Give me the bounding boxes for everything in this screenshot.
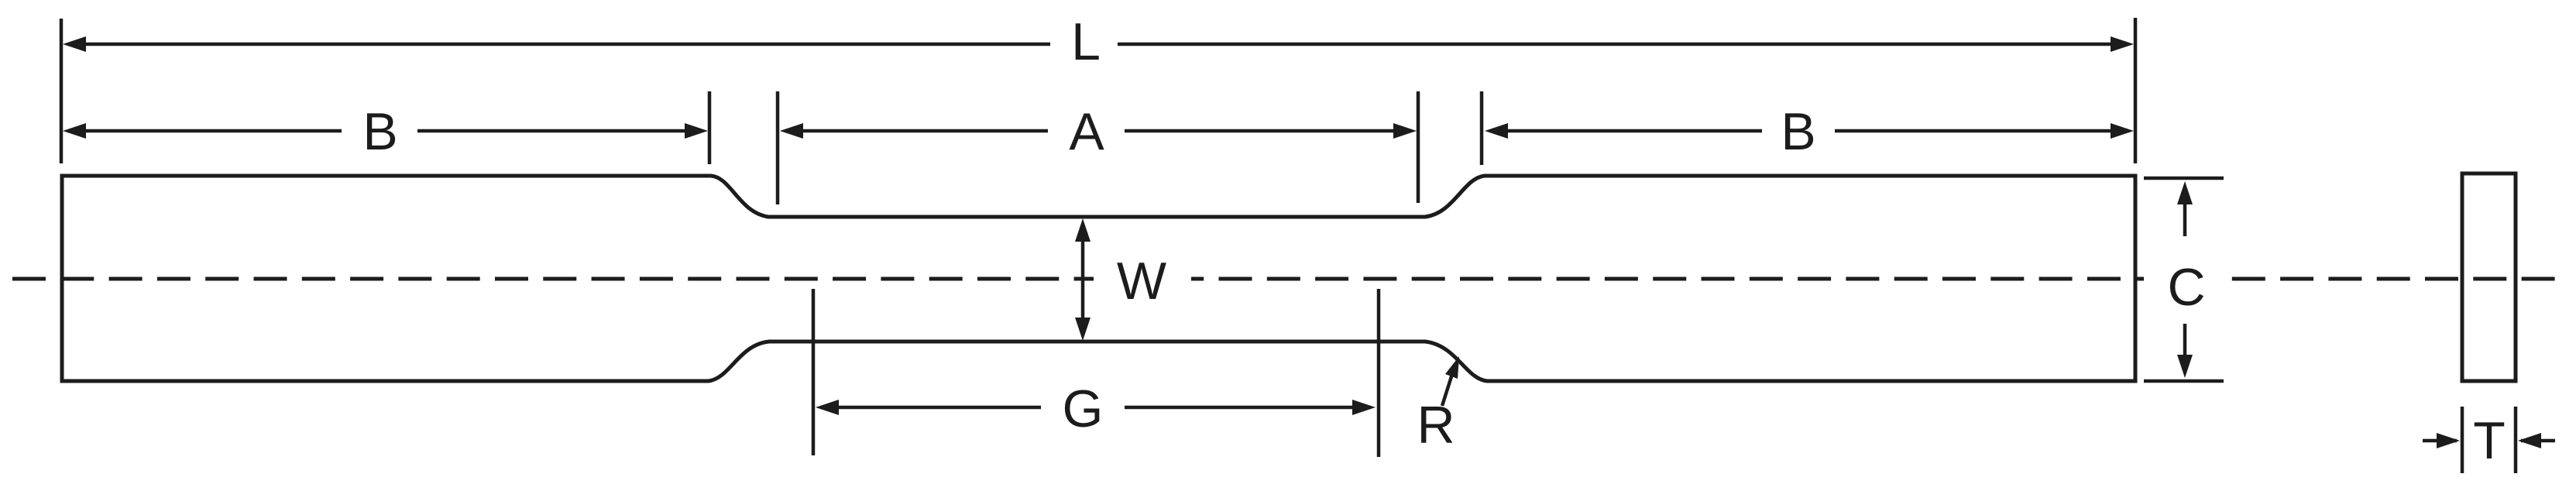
arrowhead T left (points right) xyxy=(2437,433,2460,448)
arrowhead B-right right xyxy=(2111,123,2134,139)
svg-text:W: W xyxy=(1117,252,1166,311)
extension line G-right xyxy=(1377,289,1381,457)
svg-text:T: T xyxy=(2473,411,2506,470)
svg-text:B: B xyxy=(362,102,397,161)
svg-text:L: L xyxy=(1071,12,1101,71)
extension line right xyxy=(2134,18,2138,163)
dimension B-right line xyxy=(1490,129,1762,133)
extension tick C bottom xyxy=(2144,379,2224,383)
label mask C xyxy=(2144,256,2231,304)
extension tick C top xyxy=(2144,177,2224,180)
arrowhead A left xyxy=(780,123,803,139)
dimension T left arrow shaft xyxy=(2423,439,2457,443)
arrowhead B-right left xyxy=(1485,123,1508,139)
extension line B-left end xyxy=(1480,91,1484,165)
extension line T right xyxy=(2514,407,2518,473)
specimen outline xyxy=(62,176,2135,381)
arrowhead R (points up-right) xyxy=(1445,356,1459,379)
extension line A-left xyxy=(776,91,780,204)
arrowhead G left xyxy=(816,400,839,415)
dimension L line xyxy=(68,43,1050,46)
arrowhead W top xyxy=(1075,218,1091,242)
arrowhead G right xyxy=(1352,400,1376,415)
extension line A-right xyxy=(1417,91,1420,203)
arrowhead A right xyxy=(1393,123,1417,139)
svg-text:G: G xyxy=(1063,379,1104,438)
arrowhead C down xyxy=(2177,355,2193,378)
dimension T right arrow shaft xyxy=(2521,439,2555,443)
arrowhead C up xyxy=(2177,181,2193,204)
extension line G-left xyxy=(812,289,816,455)
svg-text:C: C xyxy=(2167,258,2205,317)
side view rectangle xyxy=(2462,173,2516,381)
svg-text:R: R xyxy=(1417,396,1455,455)
dimension C upper arrow shaft xyxy=(2183,187,2187,236)
dimension C lower arrow shaft xyxy=(2183,324,2187,373)
extension line left xyxy=(60,19,64,163)
dimension A line xyxy=(785,129,1048,133)
arrowhead L left xyxy=(63,36,86,52)
dimension B-left line xyxy=(68,129,342,133)
label mask W xyxy=(1094,246,1191,313)
R leader line xyxy=(1442,374,1452,406)
arrowhead B-left left xyxy=(63,123,86,139)
svg-text:A: A xyxy=(1069,102,1104,161)
arrowhead L right xyxy=(2111,36,2134,52)
extension line T left xyxy=(2461,407,2464,473)
arrowhead W bottom xyxy=(1075,318,1091,341)
arrowhead B-left right xyxy=(685,123,708,139)
dimension W line vertical xyxy=(1081,224,1085,335)
arrowhead T right (points left) xyxy=(2518,433,2541,448)
extension line B-right end xyxy=(708,91,712,164)
centerline dashed xyxy=(12,277,2565,281)
svg-text:B: B xyxy=(1781,102,1815,161)
dimension G line xyxy=(821,406,1041,410)
